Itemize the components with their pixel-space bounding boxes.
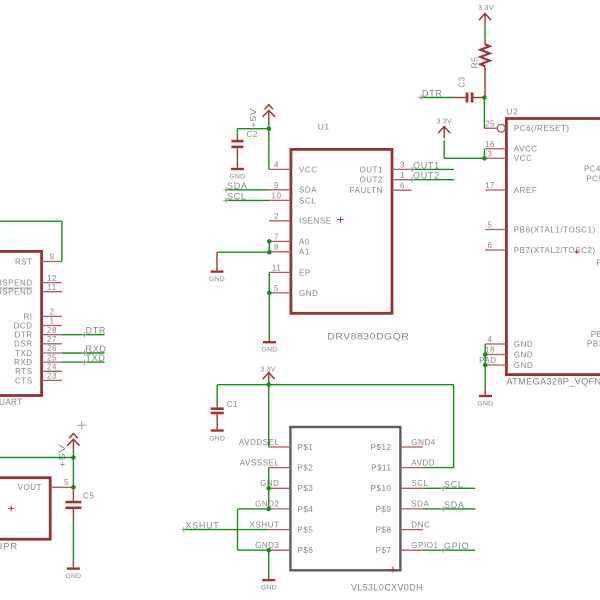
svg-text:P$6: P$6 bbox=[298, 546, 314, 555]
svg-text:3: 3 bbox=[488, 149, 493, 158]
svg-text:OUT1: OUT1 bbox=[359, 165, 383, 174]
svg-text:C1: C1 bbox=[227, 400, 238, 409]
svg-text:P$3: P$3 bbox=[298, 484, 314, 493]
svg-text:25: 25 bbox=[47, 353, 57, 362]
svg-text:SDA: SDA bbox=[411, 500, 429, 509]
svg-text:25: 25 bbox=[485, 119, 495, 128]
svg-text:4: 4 bbox=[274, 161, 279, 170]
svg-text:SUSPEND: SUSPEND bbox=[0, 279, 33, 288]
svg-text:SCL: SCL bbox=[444, 479, 464, 489]
svg-text:3: 3 bbox=[400, 161, 405, 170]
svg-text:P$10: P$10 bbox=[371, 484, 392, 493]
svg-text:P$4: P$4 bbox=[298, 505, 314, 514]
svg-text:RI: RI bbox=[23, 312, 32, 321]
svg-text:AREF: AREF bbox=[514, 186, 538, 195]
svg-text:C3: C3 bbox=[458, 76, 467, 87]
svg-text:P$7: P$7 bbox=[376, 546, 392, 555]
svg-text:SDA: SDA bbox=[227, 181, 248, 191]
svg-text:A1: A1 bbox=[299, 248, 310, 257]
svg-text:GND: GND bbox=[477, 401, 493, 408]
svg-text:TXD: TXD bbox=[86, 353, 106, 363]
svg-text:28: 28 bbox=[47, 326, 57, 335]
svg-text:U2: U2 bbox=[506, 107, 518, 117]
svg-text:A0: A0 bbox=[299, 237, 310, 246]
svg-text:1: 1 bbox=[50, 317, 55, 326]
svg-text:GPIO: GPIO bbox=[444, 541, 469, 551]
svg-text:OUT1: OUT1 bbox=[413, 160, 440, 170]
svg-text:GPIO1: GPIO1 bbox=[411, 541, 438, 550]
svg-text:GND: GND bbox=[514, 340, 533, 349]
svg-text:GND: GND bbox=[65, 573, 81, 580]
svg-text:SCL: SCL bbox=[411, 479, 428, 488]
svg-text:VCC: VCC bbox=[299, 165, 318, 174]
svg-text:23: 23 bbox=[47, 372, 57, 381]
svg-text:EP: EP bbox=[299, 268, 311, 277]
svg-text:R5: R5 bbox=[470, 57, 480, 69]
svg-text:GND: GND bbox=[209, 435, 225, 442]
svg-text:1: 1 bbox=[400, 171, 405, 180]
svg-text:10: 10 bbox=[272, 192, 282, 201]
svg-text:UART: UART bbox=[0, 397, 23, 408]
svg-text:C5: C5 bbox=[83, 492, 94, 501]
svg-text:DTR: DTR bbox=[422, 88, 443, 98]
svg-text:3.3V: 3.3V bbox=[437, 119, 453, 126]
svg-text:SDA: SDA bbox=[299, 186, 317, 195]
svg-text:PB7(XTAL2/TOSC2): PB7(XTAL2/TOSC2) bbox=[514, 246, 596, 255]
svg-text:PB6(XTAL1/TOSC1): PB6(XTAL1/TOSC1) bbox=[514, 225, 596, 234]
svg-text:SCL: SCL bbox=[299, 196, 316, 205]
svg-text:GND: GND bbox=[209, 276, 225, 283]
svg-text:GND: GND bbox=[261, 347, 277, 354]
svg-text:6: 6 bbox=[400, 181, 405, 190]
svg-text:DCD: DCD bbox=[14, 321, 33, 330]
svg-text:5: 5 bbox=[274, 284, 279, 293]
svg-text:8: 8 bbox=[274, 243, 279, 252]
svg-text:GND: GND bbox=[514, 361, 533, 370]
svg-text:VCC: VCC bbox=[514, 154, 533, 163]
svg-text:SCL: SCL bbox=[227, 191, 247, 201]
svg-text:FAULTN: FAULTN bbox=[350, 186, 383, 195]
svg-text:P$11: P$11 bbox=[371, 464, 391, 473]
svg-text:PC4(ADC4/SDA): PC4(ADC4/SDA) bbox=[584, 165, 600, 174]
svg-text:P$12: P$12 bbox=[371, 443, 392, 452]
svg-text:AVDDSEL: AVDDSEL bbox=[239, 438, 280, 447]
svg-text:P$2: P$2 bbox=[298, 464, 314, 473]
svg-text:C2: C2 bbox=[247, 130, 258, 139]
svg-text:ISENSE: ISENSE bbox=[299, 217, 332, 226]
svg-text:DTR: DTR bbox=[15, 331, 33, 340]
svg-text:VL53L0CXV0DH: VL53L0CXV0DH bbox=[351, 583, 423, 594]
svg-text:26: 26 bbox=[47, 344, 57, 353]
svg-text:P$8: P$8 bbox=[376, 526, 392, 535]
svg-text:RST: RST bbox=[15, 257, 33, 266]
svg-text:5: 5 bbox=[64, 478, 69, 487]
svg-text:4: 4 bbox=[488, 335, 493, 344]
svg-text:PC6(/RESET): PC6(/RESET) bbox=[514, 124, 570, 133]
svg-text:GND: GND bbox=[229, 174, 245, 181]
svg-text:11: 11 bbox=[272, 264, 281, 273]
svg-text:P$5: P$5 bbox=[298, 526, 314, 535]
svg-text:PB2(/SS/OC1B): PB2(/SS/OC1B) bbox=[597, 259, 600, 268]
svg-text:OUT2: OUT2 bbox=[359, 176, 383, 185]
svg-text:PB4(MISO): PB4(MISO) bbox=[591, 330, 600, 339]
svg-text:P$9: P$9 bbox=[376, 505, 392, 514]
svg-text:9: 9 bbox=[274, 181, 279, 190]
svg-text:TXD: TXD bbox=[15, 349, 33, 358]
svg-text:DNC: DNC bbox=[411, 520, 430, 529]
svg-text:RXD: RXD bbox=[14, 358, 33, 367]
svg-text:GND4: GND4 bbox=[411, 438, 435, 447]
svg-text:DSR: DSR bbox=[14, 340, 33, 349]
svg-text:CTS: CTS bbox=[15, 376, 33, 385]
svg-text:OUT2: OUT2 bbox=[413, 171, 440, 181]
svg-text:11: 11 bbox=[47, 283, 56, 292]
svg-text:+5V: +5V bbox=[57, 444, 67, 468]
svg-text:XSHUT: XSHUT bbox=[250, 520, 280, 529]
svg-text:RTS: RTS bbox=[15, 367, 33, 376]
svg-text:DTR: DTR bbox=[86, 326, 107, 336]
svg-text:GND: GND bbox=[261, 585, 277, 592]
svg-text:SDA: SDA bbox=[444, 500, 465, 510]
svg-text:24: 24 bbox=[47, 363, 57, 372]
svg-text:27: 27 bbox=[47, 335, 57, 344]
svg-text:6: 6 bbox=[488, 241, 493, 250]
svg-text:XSHUT: XSHUT bbox=[186, 521, 220, 531]
svg-text:PAD: PAD bbox=[479, 356, 497, 365]
svg-text:3.3V: 3.3V bbox=[478, 5, 494, 12]
svg-text:PB3(MOSI/OC2): PB3(MOSI/OC2) bbox=[587, 340, 600, 349]
svg-text:PC5(ADC5/SCL): PC5(ADC5/SCL) bbox=[586, 174, 600, 183]
svg-text:2: 2 bbox=[274, 212, 279, 221]
svg-text:5: 5 bbox=[488, 221, 493, 230]
svg-text:7: 7 bbox=[274, 233, 279, 242]
svg-text:9: 9 bbox=[50, 253, 55, 262]
svg-text:GND: GND bbox=[514, 350, 533, 359]
svg-text:AVCC: AVCC bbox=[514, 145, 538, 154]
svg-text:P$1: P$1 bbox=[298, 443, 314, 452]
svg-text:12: 12 bbox=[47, 274, 57, 283]
svg-text:16: 16 bbox=[485, 140, 495, 149]
svg-text:U1: U1 bbox=[318, 122, 330, 132]
svg-text:SUSPEND: SUSPEND bbox=[0, 288, 33, 297]
svg-text:ATMEGA328P_VQFN32: ATMEGA328P_VQFN32 bbox=[506, 376, 600, 387]
svg-text:VOUT: VOUT bbox=[18, 483, 42, 492]
svg-text:+5V: +5V bbox=[248, 108, 258, 128]
svg-text:UPR: UPR bbox=[0, 542, 18, 553]
svg-text:2: 2 bbox=[50, 308, 55, 317]
svg-text:AVSSSEL: AVSSSEL bbox=[240, 458, 280, 467]
svg-text:GND: GND bbox=[299, 289, 318, 298]
svg-text:AVDD: AVDD bbox=[411, 458, 435, 467]
svg-text:DRV8830DGQR: DRV8830DGQR bbox=[327, 331, 409, 342]
svg-text:17: 17 bbox=[485, 181, 495, 190]
